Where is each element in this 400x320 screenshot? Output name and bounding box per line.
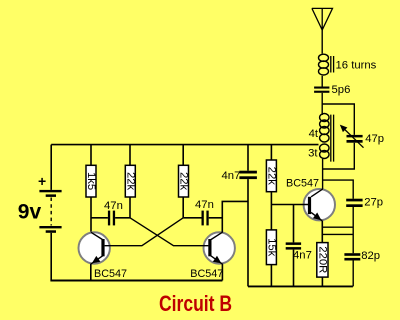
wire: Q1 emitter to 0V <box>90 264 92 281</box>
svg-text:BC547: BC547 <box>94 268 127 280</box>
svg-text:22k: 22k <box>124 172 136 191</box>
wire: battery positive to rail <box>50 145 52 190</box>
svg-text:82p: 82p <box>361 250 380 262</box>
wire: base node to Q3 base <box>271 204 308 206</box>
wire: Q2 emitter to 0V <box>221 264 223 281</box>
capacitor C6 5p6 <box>314 84 350 96</box>
wire: base node down to R5 <box>270 205 272 230</box>
wire: C8 bottom to C9 top <box>352 207 354 253</box>
svg-text:4t: 4t <box>309 128 319 140</box>
wire: R4 to Q3 base node <box>270 192 272 205</box>
svg-text:BC547: BC547 <box>190 268 223 280</box>
capacitor C9 82p <box>344 250 380 262</box>
wire: +9V top rail <box>51 144 318 146</box>
resistor R3 22k <box>178 145 190 197</box>
capacitor C5 4n7 <box>286 205 312 287</box>
resistor R5 15k <box>265 230 277 287</box>
wire: antenna feed <box>321 30 323 54</box>
svg-text:4n7: 4n7 <box>293 250 312 262</box>
svg-text:47p: 47p <box>365 133 384 145</box>
svg-text:5p6: 5p6 <box>332 84 351 96</box>
capacitor C1 47n <box>91 200 130 226</box>
wire: L1 to C6 <box>321 76 323 87</box>
wire: RF 0V rail <box>248 285 353 287</box>
wire: cross link C2 node to Q1 base <box>105 218 184 246</box>
svg-text:+: + <box>38 173 46 189</box>
wire: R3 to C2 node <box>182 197 184 218</box>
wire: R1 to Q1 collector <box>90 197 92 233</box>
resistor R6 220R <box>316 243 328 287</box>
capacitor C3 4n7 decoupling <box>222 145 257 182</box>
wire: tank bottom to Q3 collector <box>322 159 324 189</box>
wire: C7 bottom to collector node <box>323 143 355 169</box>
wire: battery negative to 0V rail <box>50 233 52 281</box>
capacitor C8 27p <box>346 197 383 209</box>
svg-text:4n7: 4n7 <box>222 170 241 182</box>
svg-text:9v: 9v <box>18 200 42 223</box>
svg-text:16 turns: 16 turns <box>336 59 377 71</box>
inductor L1 16 turns <box>319 54 377 75</box>
transistor Q1 BC547 <box>79 232 128 280</box>
resistor R4 22k <box>265 145 277 192</box>
svg-text:BC547: BC547 <box>286 178 319 190</box>
wire: tank top to C7 <box>322 104 354 135</box>
resistor R2 22k <box>124 145 136 197</box>
svg-text:15k: 15k <box>265 238 277 257</box>
svg-text:47n: 47n <box>195 199 214 211</box>
svg-text:1k5: 1k5 <box>85 172 97 190</box>
wire: R2 to C1 node <box>129 197 131 218</box>
capacitor C7 47p trimmer <box>340 125 384 148</box>
svg-text:47n: 47n <box>104 200 123 212</box>
wire: emitter link upper <box>322 226 353 228</box>
svg-text:22k: 22k <box>178 172 190 191</box>
svg-text:Circuit B: Circuit B <box>159 291 232 316</box>
wire: C3 bottom to RF 0V rail <box>247 179 249 286</box>
battery B1 9v <box>18 173 62 233</box>
antenna <box>312 8 333 30</box>
capacitor C2 47n <box>183 199 222 226</box>
svg-text:27p: 27p <box>364 197 383 209</box>
wire: C9 bottom to RF 0V <box>352 261 354 287</box>
wire: Q2 collector riser to decoupling node <box>222 201 248 232</box>
wire: C6 to tank top <box>321 93 323 115</box>
wire: 0V rail astable <box>50 280 222 282</box>
wire: cross link C1 node to Q2 base <box>130 218 208 246</box>
svg-text:220R: 220R <box>316 246 328 273</box>
wire: emitter link lower <box>322 233 353 235</box>
transistor Q3 BC547 <box>286 178 335 221</box>
resistor R1 1k5 <box>85 145 97 197</box>
svg-text:3t: 3t <box>308 148 318 160</box>
wire: Q3 emitter <box>321 221 323 243</box>
inductor L2 tank coil 4t/3t <box>308 114 334 162</box>
wire: collector node to C8 <box>323 180 354 199</box>
transistor Q2 BC547 <box>190 232 235 280</box>
svg-text:22k: 22k <box>265 167 277 186</box>
